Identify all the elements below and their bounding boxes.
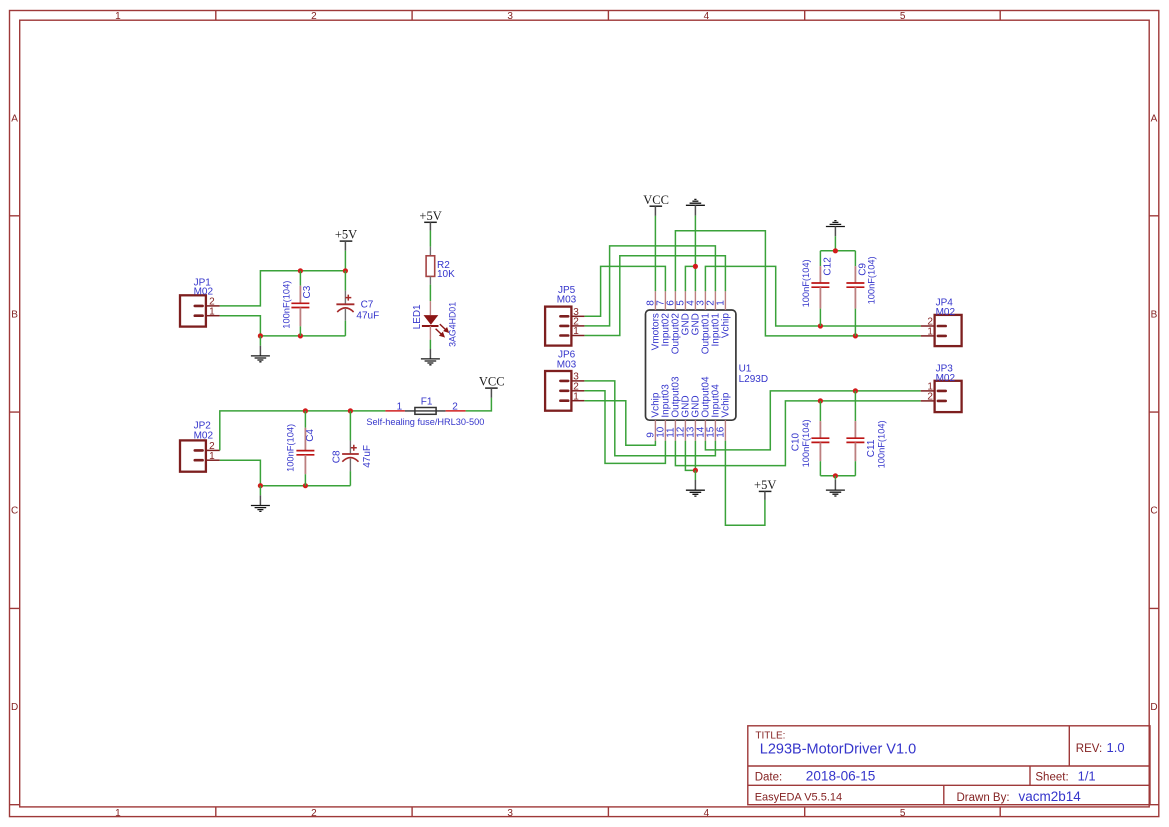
junction dot C12 bottom xyxy=(818,323,823,328)
junction dot at C3 bottom xyxy=(298,333,303,338)
svg-text:D: D xyxy=(11,702,18,713)
ruler column numbers top xyxy=(115,11,906,22)
U1 pin 12 xyxy=(675,395,691,440)
ruler column numbers bottom xyxy=(115,808,906,819)
svg-text:M03: M03 xyxy=(557,359,577,370)
svg-text:1: 1 xyxy=(209,306,215,317)
power flag +5V (LED chain) xyxy=(419,209,441,231)
wire U1 pin16 to +5V xyxy=(725,441,765,526)
svg-text:+5V: +5V xyxy=(419,209,441,223)
fuse F1 xyxy=(385,408,465,415)
ground symbol (U1 bottom) xyxy=(686,470,705,496)
wire U1 pin5 to ground net xyxy=(685,266,695,291)
svg-text:10K: 10K xyxy=(437,269,455,280)
connector JP2 body xyxy=(180,440,206,471)
connector JP6 pin 1 xyxy=(560,399,584,402)
svg-text:2: 2 xyxy=(452,402,458,413)
capacitor C11 xyxy=(846,391,864,476)
wire +5V to R2 xyxy=(429,231,431,247)
ground symbol (C12/C9, inverted) xyxy=(826,221,845,237)
U1 pin 11 xyxy=(665,376,681,441)
wire ground to U1 pin4 xyxy=(694,216,696,292)
U1 pin 14 xyxy=(695,376,711,441)
connector JP4 pin 1 xyxy=(921,335,946,338)
U1 pin 5 xyxy=(675,291,691,335)
svg-text:vacm2b14: vacm2b14 xyxy=(1019,789,1082,804)
wire U1 pin2 to JP5 pin2 xyxy=(584,246,715,326)
wire JP6 pin3 to U1 pin15 xyxy=(584,381,715,456)
svg-text:1: 1 xyxy=(573,326,579,337)
op-amp U1 body (L293D driver IC) xyxy=(646,310,736,420)
svg-text:C3: C3 xyxy=(302,285,313,298)
LED LED1 xyxy=(422,301,448,340)
svg-text:5: 5 xyxy=(900,808,906,819)
svg-text:TITLE:: TITLE: xyxy=(755,731,785,742)
power flag +5V (U1 pin16) xyxy=(754,478,776,500)
wire U1 pin7 to JP5 pin3 xyxy=(584,266,665,316)
connector JP5 pin 2 xyxy=(560,325,584,328)
wire +5V stem to rail xyxy=(344,251,346,271)
svg-text:A: A xyxy=(11,113,18,124)
wire U1 pin14 to JP3 pin1 xyxy=(705,391,920,450)
connector JP5 body xyxy=(545,307,571,346)
wire JP2 pin2 up to VCC rail xyxy=(220,411,386,451)
svg-text:1: 1 xyxy=(397,402,403,413)
ruler row letters right xyxy=(1150,113,1157,713)
svg-text:3: 3 xyxy=(507,11,513,22)
ground symbol (C10/C11) xyxy=(826,476,845,496)
svg-text:LED1: LED1 xyxy=(412,304,423,329)
wire JP2 pin1 to ground rail xyxy=(220,460,351,486)
wire LED1 to ground xyxy=(429,340,431,349)
svg-text:Self-healing fuse/HRL30-500: Self-healing fuse/HRL30-500 xyxy=(366,417,484,427)
wire U1 pin6 to JP4 pin1 xyxy=(675,231,920,336)
svg-text:F1: F1 xyxy=(421,396,433,407)
svg-text:B: B xyxy=(1151,309,1158,320)
svg-text:C7: C7 xyxy=(361,300,374,311)
svg-text:3: 3 xyxy=(507,808,513,819)
svg-text:A: A xyxy=(1151,113,1158,124)
connector JP5 pin 1 xyxy=(560,334,584,337)
svg-text:C12: C12 xyxy=(822,257,833,276)
junction dot at C4 top xyxy=(303,408,308,413)
connector JP2 pin 1 xyxy=(195,459,220,462)
wire JP1 pin1 to ground rail xyxy=(220,316,346,336)
wire U1 pin3 to JP4 pin2 xyxy=(705,266,920,326)
svg-text:2: 2 xyxy=(311,808,317,819)
junction dot C10/C11 ground tee xyxy=(833,473,838,478)
svg-text:L293B-MotorDriver V1.0: L293B-MotorDriver V1.0 xyxy=(760,742,916,758)
svg-text:3AG4HD01: 3AG4HD01 xyxy=(447,302,457,347)
U1 pin 15 xyxy=(705,384,721,441)
svg-text:Sheet:: Sheet: xyxy=(1035,771,1068,783)
svg-text:+5V: +5V xyxy=(335,228,357,242)
svg-text:47uF: 47uF xyxy=(356,311,379,322)
svg-text:M02: M02 xyxy=(936,307,956,318)
capacitor C9 xyxy=(846,251,864,336)
U1 pin 3 xyxy=(695,291,711,354)
connector JP1 body xyxy=(180,295,206,326)
svg-text:1: 1 xyxy=(573,391,579,402)
svg-text:Vchip: Vchip xyxy=(721,313,732,338)
svg-text:Vchip: Vchip xyxy=(721,392,732,417)
svg-text:100nF(104): 100nF(104) xyxy=(876,420,886,468)
junction dot at ground tee xyxy=(258,333,263,338)
svg-text:M03: M03 xyxy=(557,294,577,305)
capacitor C3 xyxy=(291,271,309,336)
svg-text:VCC: VCC xyxy=(479,375,505,389)
wire JP6 pin2 to U1 pin10 xyxy=(584,391,665,464)
ground symbol (JP2 circuit) xyxy=(251,486,270,512)
wire JP6 pin1 to U1 pin9 xyxy=(584,401,655,446)
power flag +5V (JP1 circuit) xyxy=(335,228,357,251)
svg-text:1: 1 xyxy=(209,451,215,462)
svg-text:1: 1 xyxy=(115,808,121,819)
wire ground to C12/C9 rail xyxy=(834,236,836,251)
U1 pin 16 xyxy=(715,392,731,441)
wire U1 pin12 to ground join xyxy=(685,441,695,471)
ruler tick marks top xyxy=(216,11,1000,21)
junction dot U1 pin5 ground join xyxy=(693,264,698,269)
svg-text:16: 16 xyxy=(715,426,726,438)
junction dot at C8 top xyxy=(348,408,353,413)
junction dot C12/C9 ground tee xyxy=(833,248,838,253)
svg-text:C8: C8 xyxy=(331,450,342,463)
power flag VCC (U1 pin8) xyxy=(643,193,669,216)
svg-text:M02: M02 xyxy=(194,430,214,441)
U1 pin 13 xyxy=(685,395,701,440)
capacitor C12 xyxy=(811,251,829,326)
ruler row letters left xyxy=(11,113,18,713)
svg-text:2: 2 xyxy=(311,11,317,22)
junction dot at C3 top xyxy=(298,268,303,273)
svg-text:47uF: 47uF xyxy=(362,445,373,468)
wire C10/C11 bottom rail xyxy=(820,475,855,477)
connector JP3 pin 2 xyxy=(921,400,946,403)
wire F1 pin2 to VCC xyxy=(466,398,492,411)
svg-text:4: 4 xyxy=(704,11,710,22)
U1 pin 6 xyxy=(665,291,681,354)
svg-text:+5V: +5V xyxy=(754,478,776,492)
svg-text:1: 1 xyxy=(927,327,933,338)
ruler tick marks left xyxy=(10,216,20,805)
svg-text:100nF(104): 100nF(104) xyxy=(801,259,811,307)
junction dot at +5V / C7 top xyxy=(343,268,348,273)
svg-text:100nF(104): 100nF(104) xyxy=(286,424,296,472)
svg-text:100nF(104): 100nF(104) xyxy=(801,419,811,467)
junction dot at C4 bottom xyxy=(303,483,308,488)
svg-text:1.0: 1.0 xyxy=(1107,740,1125,755)
svg-text:EasyEDA V5.5.14: EasyEDA V5.5.14 xyxy=(755,792,842,804)
svg-text:Drawn By:: Drawn By: xyxy=(957,792,1010,804)
U1 pin 10 xyxy=(655,384,671,441)
svg-text:100nF(104): 100nF(104) xyxy=(867,256,877,304)
wire U1 pin11 to JP3 pin2 xyxy=(675,401,920,466)
wire JP1 pin2 to +5V rail xyxy=(220,271,346,306)
U1 pin 7 xyxy=(655,291,671,346)
connector JP3 body xyxy=(935,381,962,412)
ruler tick marks bottom xyxy=(216,807,1000,817)
svg-text:D: D xyxy=(1150,702,1157,713)
ground symbol (JP1 circuit) xyxy=(251,336,270,362)
title block row dividers xyxy=(748,766,1150,785)
ground symbol (U1 top, inverted) xyxy=(686,199,705,215)
svg-text:VCC: VCC xyxy=(643,193,669,207)
power flag VCC (fuse output) xyxy=(479,375,505,398)
svg-text:1: 1 xyxy=(115,11,121,22)
svg-text:1/1: 1/1 xyxy=(1078,768,1096,783)
svg-text:C4: C4 xyxy=(305,429,316,442)
connector JP2 pin 2 xyxy=(195,449,220,452)
connector JP4 pin 2 xyxy=(921,325,946,328)
svg-text:2: 2 xyxy=(927,392,933,403)
polarized capacitor C7 xyxy=(336,271,354,336)
junction dot C11 top xyxy=(853,388,858,393)
polarized capacitor C8 xyxy=(342,411,359,486)
svg-text:M02: M02 xyxy=(194,287,214,298)
connector JP6 body xyxy=(545,371,571,411)
connector JP1 pin 2 xyxy=(195,305,220,308)
U1 pin 4 xyxy=(685,291,701,335)
svg-text:REV:: REV: xyxy=(1076,743,1102,755)
connector JP1 pin 1 xyxy=(195,314,220,317)
svg-text:2018-06-15: 2018-06-15 xyxy=(806,768,876,783)
wire C12/C9 top rail xyxy=(820,250,855,252)
connector JP6 pin 2 xyxy=(560,389,584,392)
svg-text:C: C xyxy=(1150,506,1157,517)
wire R2 to LED1 xyxy=(429,285,431,302)
resistor R2 xyxy=(426,247,435,285)
svg-text:1: 1 xyxy=(715,300,726,306)
connector JP3 pin 1 xyxy=(921,390,946,393)
U1 pin 1 xyxy=(715,291,731,338)
svg-text:4: 4 xyxy=(704,808,710,819)
connector JP5 pin 3 xyxy=(560,315,584,318)
junction dot C10 top xyxy=(818,398,823,403)
svg-text:B: B xyxy=(11,309,18,320)
junction dot U1 bottom ground xyxy=(693,468,698,473)
ruler tick marks right xyxy=(1149,216,1159,805)
svg-text:L293D: L293D xyxy=(739,374,768,385)
junction dot at JP2 ground tee xyxy=(258,483,263,488)
svg-text:M02: M02 xyxy=(936,373,956,384)
wire U1 pin1 to JP5 pin1 xyxy=(584,256,725,336)
svg-text:100nF(104): 100nF(104) xyxy=(281,281,291,329)
title block cell dividers xyxy=(944,726,1070,805)
U1 pin 9 xyxy=(645,392,661,441)
junction dot C9 bottom xyxy=(853,333,858,338)
capacitor C10 xyxy=(811,401,829,476)
connector JP4 body xyxy=(935,315,962,346)
connector JP6 pin 3 xyxy=(560,380,584,383)
svg-text:5: 5 xyxy=(900,11,906,22)
wire U1 pin13 to ground xyxy=(694,441,696,471)
ground symbol (LED chain) xyxy=(421,349,440,365)
U1 pin 2 xyxy=(705,291,721,346)
U1 pin 8 xyxy=(645,291,661,350)
svg-text:Date:: Date: xyxy=(755,771,783,783)
wire VCC to U1 pin8 xyxy=(654,216,656,291)
title block outline xyxy=(748,726,1150,805)
svg-text:C: C xyxy=(11,506,18,517)
capacitor C4 xyxy=(296,411,314,486)
